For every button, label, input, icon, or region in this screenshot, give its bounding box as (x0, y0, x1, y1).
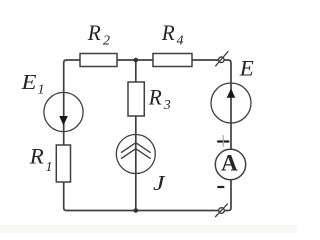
svg-text:R: R (87, 20, 101, 45)
current source J (116, 135, 155, 174)
wire right vertical (228, 60, 231, 211)
resistor R2 (80, 54, 117, 67)
resistor R3 (128, 82, 144, 116)
svg-text:4: 4 (177, 34, 184, 49)
label R2 (87, 20, 110, 49)
faint scan strip (0, 225, 297, 233)
node junction top (134, 58, 139, 63)
svg-text:E: E (239, 56, 255, 81)
label R4 (161, 20, 184, 49)
label E1 (20, 70, 44, 98)
svg-text:R: R (161, 20, 175, 45)
svg-text:J: J (153, 171, 167, 195)
svg-text:3: 3 (163, 98, 171, 113)
wire top horizontal (67, 59, 229, 61)
svg-text:A: A (221, 150, 238, 175)
terminal bottom (215, 204, 228, 217)
label R1 (29, 144, 53, 176)
terminal top (215, 51, 228, 66)
ammeter A (215, 149, 245, 179)
resistor R4 (153, 54, 192, 67)
svg-text:1: 1 (46, 160, 53, 175)
wire middle branch (135, 60, 137, 211)
label R3 (148, 85, 171, 114)
polarity plus (218, 136, 228, 147)
svg-text:R: R (148, 85, 162, 110)
voltage source E (211, 83, 251, 123)
voltage source E1 (44, 92, 83, 131)
svg-text:R: R (29, 144, 45, 169)
svg-text:1: 1 (38, 83, 45, 98)
wire left vertical (64, 60, 67, 211)
wire bottom horizontal (67, 210, 229, 212)
polarity minus (218, 186, 223, 188)
svg-text:2: 2 (103, 34, 110, 49)
resistor R1 (56, 145, 70, 182)
node junction bottom (134, 208, 139, 213)
svg-text:E: E (20, 70, 36, 94)
